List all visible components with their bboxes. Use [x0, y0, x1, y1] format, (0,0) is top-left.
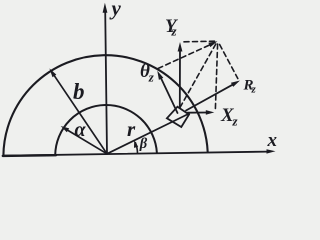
force R_z arrow [186, 84, 234, 110]
force X_z arrow [188, 112, 208, 114]
dashed: element to node T (diagonal) [180, 44, 216, 108]
outer arc (radius b semicircle) [3, 55, 207, 155]
svg-text:r: r [127, 117, 136, 141]
beta angle arc with arrow [135, 142, 137, 153]
x-axis [3, 152, 268, 156]
dashed vector: theta_z tip to node T with arrowhead [158, 45, 210, 69]
svg-text:x: x [267, 130, 278, 151]
radial line to element [107, 114, 189, 154]
svg-text:b: b [73, 79, 85, 104]
annulus flat bottom edge (left) [3, 154, 56, 157]
inner arc (radius r semicircle) [55, 105, 157, 155]
dashed: Y_z tip to node T [184, 40, 215, 43]
dashed: node T down to X_z tip [215, 44, 217, 109]
svg-text:z: z [171, 24, 178, 39]
svg-text:z: z [148, 70, 155, 85]
dashed: node T to R_z tip [220, 45, 238, 79]
b radius line with arrow [53, 74, 107, 154]
svg-text:α: α [75, 119, 87, 141]
force theta_z arrow [160, 75, 178, 113]
svg-text:z: z [251, 84, 257, 96]
element square z [167, 107, 189, 127]
svg-text:z: z [232, 114, 239, 129]
force Y_z arrow [179, 49, 181, 108]
y-axis [105, 10, 107, 154]
svg-text:β: β [139, 136, 148, 152]
alpha radius line with arrow (to inner arc) [67, 130, 107, 154]
